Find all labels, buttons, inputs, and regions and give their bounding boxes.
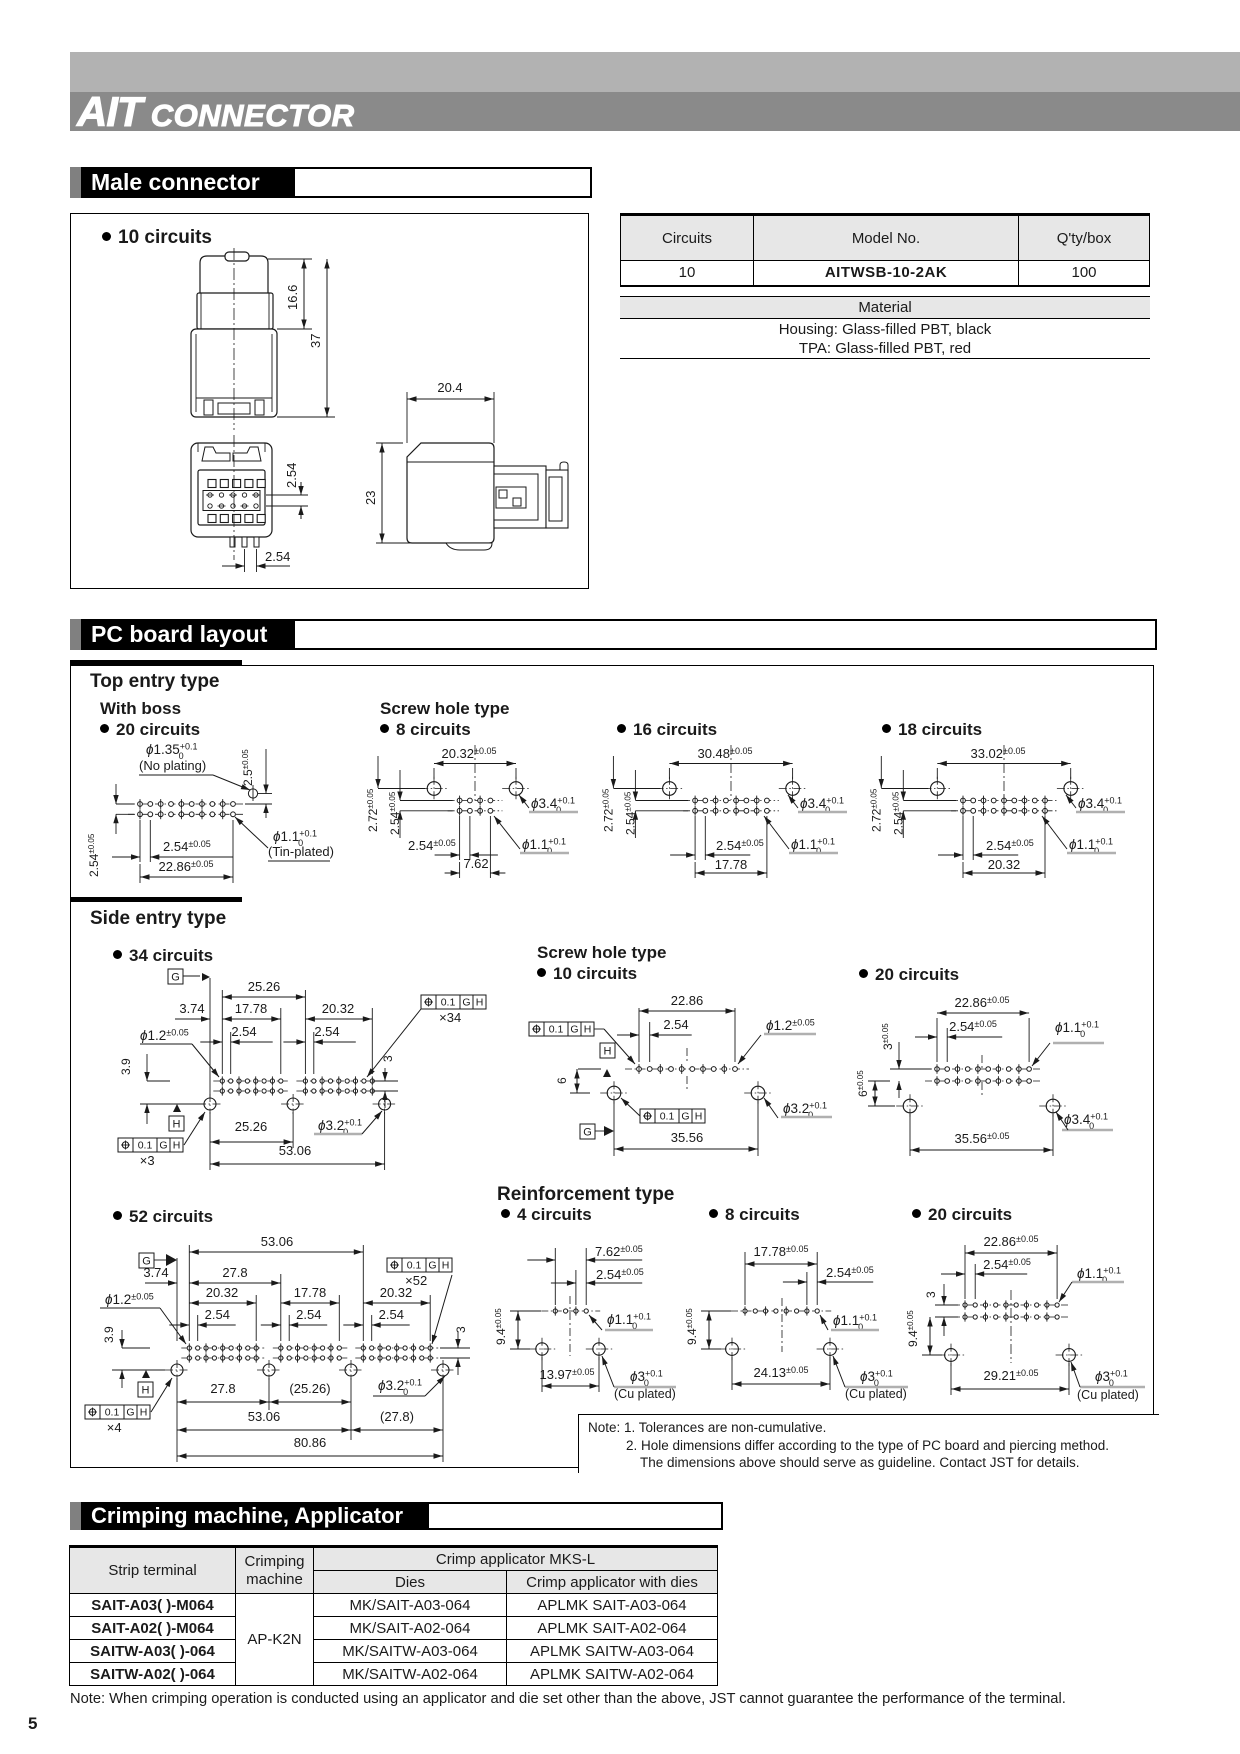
svg-text:20.32: 20.32 (206, 1285, 239, 1300)
svg-text:2.72±0.05: 2.72±0.05 (366, 788, 380, 832)
svg-text:2.54±0.05: 2.54±0.05 (986, 838, 1034, 853)
svg-text:ϕ3+0.10: ϕ3+0.10 (860, 1369, 893, 1389)
svg-text:6: 6 (555, 1077, 569, 1084)
svg-text:0.1: 0.1 (549, 1024, 564, 1036)
svg-text:(27.8): (27.8) (380, 1409, 414, 1424)
svg-text:16.6: 16.6 (285, 285, 300, 310)
svg-text:(Cu plated): (Cu plated) (1077, 1388, 1139, 1402)
svg-text:(Tin-plated): (Tin-plated) (268, 844, 334, 859)
svg-text:×34: ×34 (439, 1010, 461, 1025)
svg-text:25.26: 25.26 (235, 1119, 268, 1134)
svg-text:H: H (695, 1111, 703, 1123)
svg-text:9.4±0.05: 9.4±0.05 (906, 1310, 920, 1347)
svg-text:G: G (681, 1111, 689, 1123)
svg-text:2.54±0.05: 2.54±0.05 (949, 1019, 997, 1034)
svg-text:35.56: 35.56 (671, 1130, 704, 1145)
svg-text:2.54: 2.54 (284, 463, 299, 488)
svg-text:0.1: 0.1 (407, 1260, 422, 1272)
svg-text:9.4±0.05: 9.4±0.05 (685, 1308, 699, 1345)
svg-text:29.21±0.05: 29.21±0.05 (983, 1368, 1038, 1383)
svg-text:H: H (142, 1385, 150, 1397)
svg-text:ϕ1.2±0.05: ϕ1.2±0.05 (105, 1292, 154, 1308)
svg-text:23: 23 (363, 491, 378, 505)
svg-text:35.56±0.05: 35.56±0.05 (954, 1131, 1009, 1146)
svg-text:25.26: 25.26 (248, 979, 281, 994)
svg-text:G: G (126, 1407, 134, 1419)
svg-text:ϕ3.2+0.10: ϕ3.2+0.10 (378, 1378, 422, 1398)
svg-text:9.4±0.05: 9.4±0.05 (494, 1308, 508, 1345)
svg-text:17.78±0.05: 17.78±0.05 (753, 1244, 808, 1259)
svg-text:3: 3 (924, 1291, 938, 1298)
svg-text:0.1: 0.1 (660, 1111, 675, 1123)
svg-text:53.06: 53.06 (248, 1409, 281, 1424)
svg-text:2.54±0.05: 2.54±0.05 (87, 833, 101, 877)
svg-text:ϕ1.1+0.10: ϕ1.1+0.10 (607, 1312, 651, 1332)
svg-text:G: G (462, 997, 470, 1009)
svg-text:33.02±0.05: 33.02±0.05 (970, 746, 1025, 761)
svg-text:22.86: 22.86 (671, 993, 704, 1008)
svg-text:0.1: 0.1 (441, 997, 456, 1009)
svg-text:20.4: 20.4 (437, 380, 462, 395)
svg-text:17.78: 17.78 (294, 1285, 327, 1300)
svg-text:H: H (584, 1024, 592, 1036)
svg-text:20.32: 20.32 (988, 857, 1021, 872)
svg-text:3.9: 3.9 (102, 1326, 116, 1343)
svg-text:7.62: 7.62 (463, 856, 488, 871)
svg-text:37: 37 (308, 334, 323, 348)
svg-text:×4: ×4 (107, 1420, 122, 1435)
svg-text:7.62±0.05: 7.62±0.05 (595, 1244, 643, 1259)
svg-text:ϕ1.2±0.05: ϕ1.2±0.05 (140, 1028, 189, 1044)
svg-text:H: H (604, 1046, 612, 1058)
svg-text:G: G (428, 1260, 436, 1272)
svg-text:ϕ1.1+0.10: ϕ1.1+0.10 (1055, 1020, 1099, 1040)
svg-text:22.86±0.05: 22.86±0.05 (158, 859, 213, 874)
svg-text:2.5±0.05: 2.5±0.05 (241, 749, 255, 786)
svg-text:G: G (171, 972, 180, 984)
svg-text:2.54: 2.54 (663, 1017, 688, 1032)
svg-text:53.06: 53.06 (279, 1143, 312, 1158)
svg-text:80.86: 80.86 (294, 1435, 327, 1450)
svg-text:(Cu plated): (Cu plated) (614, 1387, 676, 1401)
svg-text:2.72±0.05: 2.72±0.05 (601, 788, 615, 832)
svg-text:H: H (173, 1140, 181, 1152)
svg-text:24.13±0.05: 24.13±0.05 (753, 1365, 808, 1380)
svg-text:0.1: 0.1 (105, 1407, 120, 1419)
svg-text:30.48±0.05: 30.48±0.05 (697, 746, 752, 761)
svg-text:6±0.05: 6±0.05 (856, 1070, 870, 1097)
svg-text:20.32: 20.32 (322, 1001, 355, 1016)
svg-text:2.54±0.05: 2.54±0.05 (826, 1265, 874, 1280)
svg-text:ϕ3.4+0.10: ϕ3.4+0.10 (1064, 1112, 1108, 1132)
svg-text:H: H (140, 1407, 148, 1419)
svg-text:3.74: 3.74 (143, 1265, 168, 1280)
svg-text:3.74: 3.74 (179, 1001, 204, 1016)
svg-text:2.54: 2.54 (314, 1024, 339, 1039)
svg-text:22.86±0.05: 22.86±0.05 (983, 1234, 1038, 1249)
svg-text:G: G (570, 1024, 578, 1036)
svg-text:53.06: 53.06 (261, 1234, 294, 1249)
svg-text:2.54±0.05: 2.54±0.05 (163, 839, 211, 854)
svg-text:(25.26): (25.26) (289, 1381, 330, 1396)
svg-text:22.86±0.05: 22.86±0.05 (954, 995, 1009, 1010)
svg-text:2.54±0.05: 2.54±0.05 (408, 838, 456, 853)
svg-text:2.54: 2.54 (296, 1307, 321, 1322)
svg-text:13.97±0.05: 13.97±0.05 (539, 1367, 594, 1382)
svg-text:2.54: 2.54 (379, 1307, 404, 1322)
svg-text:3.9: 3.9 (119, 1058, 133, 1075)
svg-text:H: H (476, 997, 484, 1009)
svg-text:2.72±0.05: 2.72±0.05 (869, 788, 883, 832)
svg-text:2.54±0.05: 2.54±0.05 (596, 1267, 644, 1282)
svg-text:ϕ1.2±0.05: ϕ1.2±0.05 (766, 1018, 815, 1034)
svg-text:27.8: 27.8 (222, 1265, 247, 1280)
svg-text:0.1: 0.1 (138, 1140, 153, 1152)
svg-text:2.54: 2.54 (265, 549, 290, 564)
svg-text:×52: ×52 (405, 1273, 427, 1288)
svg-text:G: G (159, 1140, 167, 1152)
svg-text:2.54±0.05: 2.54±0.05 (716, 838, 764, 853)
svg-text:3: 3 (454, 1326, 468, 1333)
svg-text:ϕ3+0.10: ϕ3+0.10 (1095, 1369, 1128, 1389)
svg-text:17.78: 17.78 (715, 857, 748, 872)
svg-text:3±0.05: 3±0.05 (881, 1023, 895, 1050)
svg-text:2.54: 2.54 (231, 1024, 256, 1039)
svg-text:20.32±0.05: 20.32±0.05 (441, 746, 496, 761)
svg-text:G: G (583, 1127, 592, 1139)
svg-text:(No plating): (No plating) (139, 758, 206, 773)
svg-text:27.8: 27.8 (210, 1381, 235, 1396)
svg-text:2.54: 2.54 (205, 1307, 230, 1322)
svg-text:(Cu plated): (Cu plated) (845, 1387, 907, 1401)
svg-text:17.78: 17.78 (235, 1001, 268, 1016)
svg-text:2.54±0.05: 2.54±0.05 (983, 1257, 1031, 1272)
svg-text:ϕ3+0.10: ϕ3+0.10 (630, 1369, 663, 1389)
svg-text:×3: ×3 (140, 1153, 155, 1168)
svg-text:H: H (442, 1260, 450, 1272)
svg-text:H: H (173, 1119, 181, 1131)
